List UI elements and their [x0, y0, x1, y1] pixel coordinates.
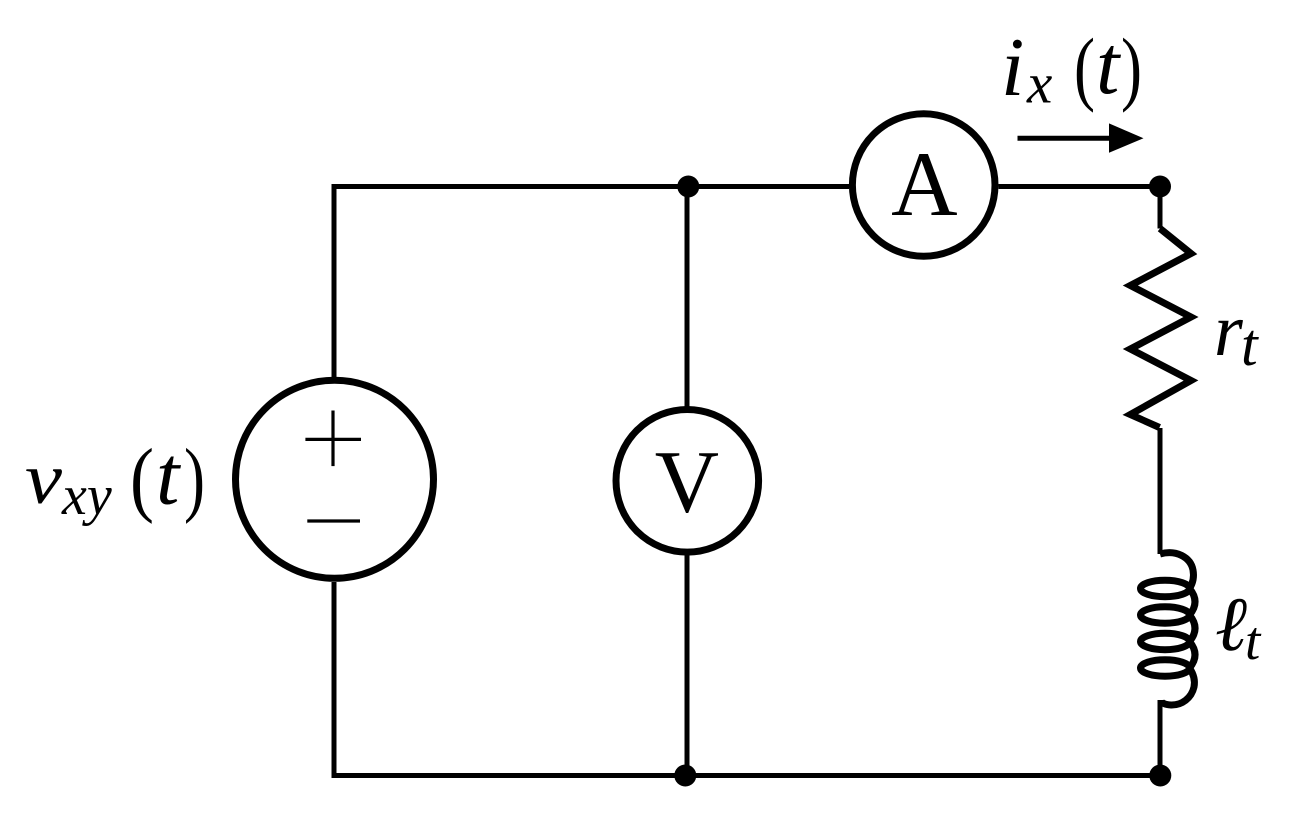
svg-text:r: r — [1214, 290, 1244, 372]
svg-text:x: x — [1026, 52, 1052, 115]
svg-text:(: ( — [130, 432, 154, 525]
svg-text:ℓ: ℓ — [1215, 581, 1247, 667]
svg-text:A: A — [891, 133, 957, 235]
svg-text:t: t — [1241, 312, 1259, 378]
svg-text:t: t — [156, 430, 182, 523]
svg-text:(: ( — [1074, 21, 1095, 113]
svg-text:xy: xy — [61, 465, 112, 527]
svg-text:): ) — [1121, 21, 1142, 113]
svg-text:t: t — [1245, 610, 1262, 671]
svg-text:V: V — [655, 433, 719, 531]
svg-text:): ) — [184, 432, 205, 525]
svg-text:v: v — [25, 438, 63, 519]
svg-text:i: i — [1001, 21, 1024, 114]
svg-text:t: t — [1096, 19, 1122, 112]
